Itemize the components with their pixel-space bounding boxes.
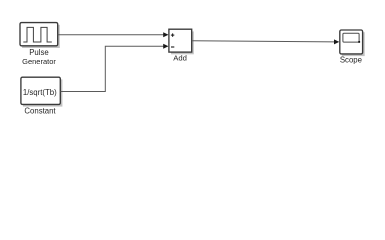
- wire Add to Scope: [192, 39, 339, 44]
- label Add: [173, 54, 187, 63]
- wire Pulse Generator to Add input 1: [58, 32, 169, 37]
- svg-text:Generator: Generator: [22, 57, 56, 66]
- svg-text:Constant: Constant: [24, 107, 56, 116]
- port sign plus: [171, 33, 174, 36]
- svg-text:Pulse: Pulse: [29, 48, 49, 57]
- label Pulse Generator: [22, 48, 56, 66]
- block Constant, value 1/sqrt(Tb): [21, 77, 63, 106]
- port sign minus: [171, 46, 174, 48]
- svg-text:Add: Add: [173, 54, 187, 63]
- block Pulse Generator: [20, 23, 60, 48]
- sum block Add: [169, 29, 194, 54]
- block Scope: [340, 30, 365, 56]
- wire Constant to Add input 2 (right, up, right): [61, 44, 169, 92]
- svg-text:1/sqrt(Tb): 1/sqrt(Tb): [23, 88, 57, 97]
- label Constant: [24, 107, 56, 116]
- svg-text:Scope: Scope: [340, 55, 362, 64]
- label Scope: [340, 55, 362, 64]
